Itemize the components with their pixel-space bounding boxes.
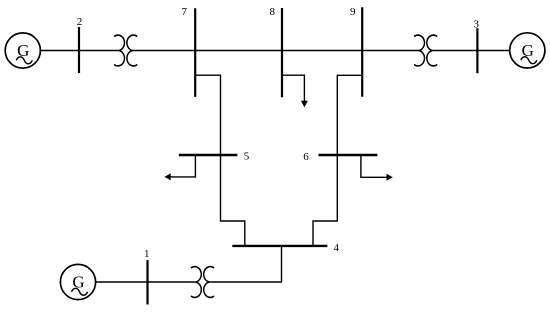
svg-text:7: 7 <box>182 6 188 18</box>
svg-text:3: 3 <box>473 19 479 31</box>
bus 9 <box>361 7 363 96</box>
wire: line bus 7 to bus 5 (down through bus 5 to bus 4) <box>195 75 245 246</box>
generator G2 (at bus 2) <box>5 33 40 68</box>
bus 6 <box>318 154 377 156</box>
bus 8 <box>281 8 283 97</box>
bus 7 <box>194 8 196 97</box>
transformer T1 (2-7) <box>114 35 137 66</box>
svg-text:9: 9 <box>350 6 356 18</box>
load at bus 5 (wire) <box>170 155 196 177</box>
svg-text:2: 2 <box>77 16 83 28</box>
load at bus 8 (arrowhead, pointing down) <box>301 101 308 107</box>
wire: generator at bus 1 to transformer 1-4 <box>95 281 194 283</box>
bus 1 <box>146 260 148 304</box>
bus 4 <box>232 245 327 247</box>
svg-text:5: 5 <box>244 150 250 162</box>
generator G3 (at bus 3) <box>510 33 545 68</box>
load at bus 6 (wire) <box>361 155 388 177</box>
svg-text:8: 8 <box>269 6 275 18</box>
wire: transformer 9-3 to generator at bus 3 <box>433 50 509 52</box>
load at bus 5 (arrowhead, pointing left) <box>164 173 170 180</box>
bus 5 <box>179 154 238 156</box>
wire: bus 4 down to transformer 1-4 <box>210 246 281 282</box>
transformer T3 (1-4) <box>191 267 214 298</box>
svg-text:4: 4 <box>334 242 340 254</box>
bus 2 <box>78 27 80 73</box>
svg-text:6: 6 <box>303 151 309 163</box>
wire: line bus 9 to bus 6 (down through bus 6 to bus 4) <box>313 75 362 246</box>
generator G1 (at bus 1) <box>60 264 95 299</box>
svg-text:1: 1 <box>144 248 150 260</box>
transformer T2 (9-3) <box>414 35 437 66</box>
bus 3 <box>476 28 478 73</box>
load at bus 6 (arrowhead, pointing right) <box>387 174 393 181</box>
wire: generator at bus 2 to transformer 2-7 <box>40 50 118 52</box>
wire: transmission line bus 7 - bus 8 - bus 9 (to transformer 9-3) <box>134 50 418 52</box>
load at bus 8 (wire) <box>282 75 304 102</box>
